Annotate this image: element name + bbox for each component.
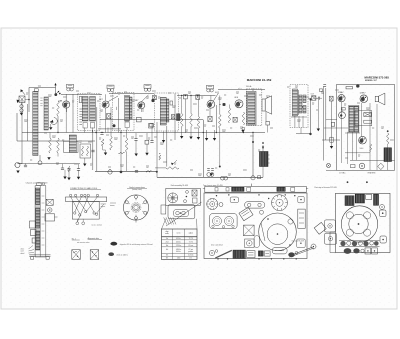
loudspeaker SPK2	[375, 93, 385, 105]
wire B+ bus	[22, 132, 265, 133]
resistor R7	[110, 107, 113, 150]
capacitor C5	[91, 150, 94, 152]
resistor R13	[219, 96, 222, 168]
wire	[17, 88, 30, 142]
svg-text:1400: 1400	[177, 258, 181, 260]
resistor R18	[197, 99, 200, 137]
capacitor C30	[315, 97, 323, 100]
ground	[180, 136, 183, 139]
drive pulley	[48, 208, 52, 212]
wire	[27, 104, 29, 141]
chassis holes	[217, 258, 297, 259]
label	[88, 237, 102, 240]
socket holes	[184, 191, 189, 203]
wire bottom bus 2	[157, 176, 263, 178]
resistor R30	[319, 89, 322, 91]
filter choke core	[247, 251, 255, 258]
trimmer location icon	[90, 250, 99, 260]
ground	[83, 158, 86, 166]
output transformer T4	[246, 89, 261, 126]
dial box	[161, 188, 202, 226]
wire	[348, 132, 353, 164]
wire	[96, 107, 98, 171]
resistor R2	[49, 133, 52, 154]
wire bottom bus	[95, 170, 157, 172]
wire	[18, 163, 41, 165]
resistor network R4	[80, 144, 91, 158]
svg-text:546-A: 546-A	[246, 85, 252, 88]
resistor R33	[364, 120, 372, 123]
wire	[218, 88, 265, 90]
phono jack J1	[14, 163, 22, 168]
alignment dots	[347, 181, 368, 183]
label	[292, 239, 304, 242]
tuning gang	[207, 198, 218, 209]
wire heater bus	[100, 119, 203, 121]
IF transformer T30	[349, 106, 359, 133]
tube V3 6K7	[135, 95, 155, 112]
electrolytic C7b	[67, 166, 70, 172]
wire	[345, 133, 370, 153]
svg-text:align: align	[165, 231, 168, 233]
ground	[103, 146, 108, 155]
tube V6 12SA7	[338, 91, 346, 102]
tube socket row	[339, 241, 380, 247]
resistor R17	[190, 96, 193, 137]
wire	[202, 120, 204, 177]
dial cord run	[288, 244, 316, 257]
resistor R36	[351, 165, 356, 168]
svg-text:455 kc: 455 kc	[176, 241, 181, 243]
shaft hole	[219, 203, 223, 207]
pilot lamp P4	[251, 176, 255, 180]
svg-text:50L6: 50L6	[360, 148, 364, 150]
ground	[135, 140, 138, 156]
wire	[29, 88, 57, 97]
bracket	[30, 221, 36, 228]
terminal lugs	[76, 219, 85, 225]
label	[360, 148, 364, 150]
wire	[309, 100, 311, 136]
coil terminals	[74, 210, 98, 216]
wire	[120, 130, 122, 171]
bracket	[32, 238, 36, 243]
output transformer	[298, 209, 305, 228]
label	[72, 238, 80, 240]
wire	[98, 98, 121, 133]
aerial label	[312, 95, 316, 98]
coil icon	[108, 252, 128, 256]
phone tip jacks	[20, 103, 23, 116]
label	[77, 241, 90, 244]
wire	[92, 130, 94, 170]
wire	[350, 159, 395, 161]
terminal lugs	[69, 194, 98, 197]
ground	[162, 140, 165, 143]
wire	[295, 116, 303, 127]
rectifier X1	[378, 163, 384, 169]
svg-text:HEATERS: HEATERS	[368, 172, 377, 175]
filter cans	[344, 248, 364, 254]
hatching	[164, 217, 176, 224]
ground	[322, 140, 340, 149]
alignment table	[162, 229, 198, 260]
resistor R1	[57, 101, 60, 133]
capacitor C34	[331, 122, 334, 126]
AVC loop	[50, 118, 57, 125]
tube V2 6K7	[99, 94, 118, 132]
terminal strip	[66, 197, 107, 202]
IF transformer T1	[73, 93, 100, 132]
tube V1 6A8	[59, 100, 70, 133]
tube socket diagram	[123, 195, 148, 223]
title MARCONI 91-459	[247, 78, 272, 82]
label	[26, 183, 48, 185]
capacitor C23	[208, 108, 212, 121]
pilot lamp P5	[359, 163, 365, 169]
output transformer core	[355, 194, 364, 203]
diode detector V8a	[339, 108, 346, 119]
mounting holes	[216, 194, 296, 199]
tube V7 12SK7	[360, 93, 368, 103]
speaker frame	[259, 213, 297, 251]
dial rail	[203, 184, 308, 193]
svg-text:T2 T3: T2 T3	[189, 238, 193, 240]
volume control R32	[355, 111, 372, 126]
svg-text:455 kc: 455 kc	[176, 238, 181, 240]
ground	[205, 138, 208, 141]
wire	[296, 127, 311, 133]
chassis deck	[204, 193, 307, 259]
tube V5 6F6	[235, 97, 244, 108]
svg-text:117 VAC: 117 VAC	[339, 172, 346, 175]
svg-text:1400 kc: 1400 kc	[176, 249, 182, 251]
tuning gang C2a	[67, 84, 74, 91]
resistor R35	[387, 130, 389, 144]
capacitor C17	[135, 171, 138, 173]
speaker pill	[272, 248, 287, 254]
wire	[324, 119, 348, 128]
capacitor block	[244, 225, 255, 236]
capacitor C21	[266, 122, 270, 133]
bracket	[31, 230, 37, 236]
capacitor C8	[153, 96, 157, 100]
junction	[156, 171, 158, 173]
ground	[17, 99, 20, 103]
note text	[110, 203, 116, 205]
tuning capacitor top	[272, 195, 288, 211]
ground	[77, 171, 80, 180]
tone capacitor	[297, 239, 306, 248]
ground	[197, 137, 200, 140]
line plug	[326, 163, 330, 167]
wire	[156, 122, 158, 177]
capacitor C9	[137, 117, 142, 122]
svg-text:padder: padder	[188, 251, 193, 253]
antenna arrow	[21, 89, 26, 95]
capacitor C20	[233, 117, 237, 122]
svg-text:recheck: recheck	[188, 254, 194, 256]
resistor R3	[57, 138, 60, 157]
terminal pill	[245, 202, 265, 208]
loop frame	[326, 85, 395, 171]
ground	[145, 144, 148, 155]
junction	[120, 171, 123, 174]
junction	[310, 99, 312, 101]
IF can pair	[365, 248, 377, 254]
tube socket	[245, 239, 255, 248]
capacitor C31	[323, 85, 326, 87]
capacitor C33	[356, 84, 359, 87]
svg-text:12SK7: 12SK7	[360, 93, 367, 95]
wire	[252, 133, 254, 178]
ground	[47, 157, 50, 160]
line cap C22	[311, 94, 316, 101]
wire	[61, 94, 102, 101]
resistor R14	[228, 105, 231, 124]
svg-text:MARCONI 571-565: MARCONI 571-565	[365, 75, 390, 79]
svg-text:order: order	[165, 233, 169, 235]
terminal board	[366, 195, 372, 200]
trimmer plate	[325, 233, 337, 244]
filter card	[239, 207, 253, 221]
label	[203, 185, 223, 187]
resistor R8	[119, 152, 125, 154]
label	[171, 185, 188, 187]
capacitor C6	[24, 164, 27, 167]
label	[70, 187, 101, 190]
ground	[16, 171, 19, 174]
oscillator coil L2	[44, 97, 48, 130]
coil box	[72, 202, 99, 220]
capacitor C7	[107, 114, 111, 119]
ground	[63, 170, 66, 179]
power transformer core	[345, 196, 354, 206]
ground	[317, 129, 320, 132]
perspective lines	[162, 219, 198, 229]
IF transformer T3	[149, 93, 179, 131]
label	[315, 186, 337, 189]
wire	[21, 99, 23, 164]
wire	[166, 126, 168, 167]
IF can assembly	[210, 214, 238, 229]
capacitor C32	[330, 96, 334, 140]
ground	[189, 137, 192, 140]
antenna coil L1	[33, 89, 43, 156]
grommet	[380, 205, 385, 210]
trimmer mount	[380, 210, 387, 217]
dial lamp P2	[207, 173, 214, 177]
electrolytic C7c	[77, 164, 80, 170]
ground	[210, 173, 213, 176]
grommet	[260, 210, 264, 214]
label	[92, 224, 102, 227]
trimmer plate	[325, 220, 336, 232]
dial drive detail	[209, 250, 232, 259]
wire	[215, 105, 217, 133]
label	[21, 246, 35, 255]
dial lamp P3	[221, 176, 228, 180]
electrolytic C7a	[61, 164, 64, 170]
wire	[308, 97, 319, 99]
wave trap icon	[110, 242, 153, 246]
tuning gang C2b	[107, 85, 114, 92]
label	[127, 186, 147, 191]
power transformer core	[233, 250, 245, 258]
capacitor C12	[100, 132, 103, 135]
capacitor can	[258, 251, 263, 256]
capacitor C14	[145, 133, 149, 144]
wire	[67, 107, 164, 140]
field choke CH1	[260, 142, 270, 177]
tube V4 6Q7	[207, 92, 220, 108]
trimmer block	[46, 199, 53, 205]
trimmer arrow	[55, 91, 61, 96]
annotation smudges	[24, 86, 394, 175]
chassis deck	[330, 193, 390, 252]
svg-text:3rd: 3rd	[166, 245, 168, 247]
label	[339, 172, 376, 175]
capacitor C18	[207, 169, 214, 171]
wire	[177, 95, 216, 96]
switch S1	[38, 155, 42, 165]
svg-text:C2 osc: C2 osc	[188, 245, 193, 247]
volume control R11	[155, 160, 179, 169]
capacitor C16	[150, 124, 154, 127]
resistor R12	[146, 170, 152, 172]
resistor R10	[159, 153, 161, 160]
headphone jack	[175, 93, 180, 140]
loudspeaker SPK1	[262, 96, 272, 114]
capacitor C13	[134, 133, 137, 140]
gang capacitor card	[314, 222, 326, 234]
svg-text:2nd: 2nd	[166, 241, 169, 243]
label	[211, 244, 223, 247]
svg-text:MODEL X P: MODEL X P	[365, 80, 378, 82]
resistor R31	[346, 87, 353, 89]
capacitor C35	[330, 137, 333, 142]
resistor R34	[370, 144, 372, 152]
oscillator can	[230, 197, 238, 203]
capacitor C11	[196, 95, 200, 100]
capacitor C10	[184, 95, 188, 134]
resistor R16	[180, 96, 183, 137]
capacitor C15	[150, 123, 153, 142]
antenna lead	[54, 83, 56, 88]
subtitle 546A	[246, 85, 252, 88]
wire	[342, 102, 378, 170]
antenna capacitor C1	[19, 96, 25, 103]
wire	[206, 130, 208, 138]
speaker rear	[168, 193, 178, 203]
svg-text:Dial assembly 91-459: Dial assembly 91-459	[171, 185, 188, 187]
electrolytic can	[374, 194, 379, 205]
svg-text:600 kc: 600 kc	[176, 251, 181, 253]
speaker frame	[341, 206, 377, 242]
filter choke CH2	[384, 144, 392, 170]
trimmer pill	[254, 236, 259, 248]
gang assembly side view	[35, 183, 46, 257]
ground	[67, 170, 70, 180]
label	[101, 203, 107, 208]
wire	[40, 163, 80, 165]
tuning gang C2c	[144, 85, 151, 92]
resistor board	[264, 251, 270, 256]
wire AVC bus	[17, 140, 95, 142]
resistor R9	[125, 130, 128, 171]
wire	[109, 92, 154, 94]
svg-text:1720 kc: 1720 kc	[176, 245, 182, 247]
resistor R6	[101, 139, 104, 146]
svg-text:T1 T2: T1 T2	[189, 241, 193, 243]
svg-text:12SA7: 12SA7	[338, 91, 345, 94]
wire	[265, 112, 267, 122]
wire	[318, 86, 326, 161]
title MARCONI 571-565	[365, 75, 390, 82]
oscillator padder coil L3	[64, 135, 78, 152]
IF transformer T2	[113, 93, 135, 131]
trimmer location icon	[72, 250, 81, 260]
dial escutcheon	[168, 205, 195, 219]
connection wires	[71, 197, 104, 222]
tuning gang C2d	[207, 85, 214, 92]
socket plate	[298, 196, 304, 202]
dial lamp P1	[108, 169, 112, 174]
resistor R15	[242, 112, 245, 130]
fuse	[258, 176, 261, 179]
ground	[241, 130, 244, 133]
mount bracket	[45, 214, 58, 221]
svg-text:MARCONI 91-459: MARCONI 91-459	[247, 78, 272, 82]
svg-text:Parts top of chassis 571-565: Parts top of chassis 571-565	[315, 186, 337, 189]
tube V8 50L6	[359, 136, 367, 144]
power transformer PT1	[290, 85, 308, 128]
base plate	[29, 255, 50, 259]
ground	[49, 124, 52, 130]
ground	[213, 130, 216, 141]
trimmer mount	[380, 236, 386, 243]
svg-text:a b c: a b c	[238, 88, 242, 90]
capacitor C19	[219, 103, 226, 106]
terminal box	[192, 190, 197, 203]
